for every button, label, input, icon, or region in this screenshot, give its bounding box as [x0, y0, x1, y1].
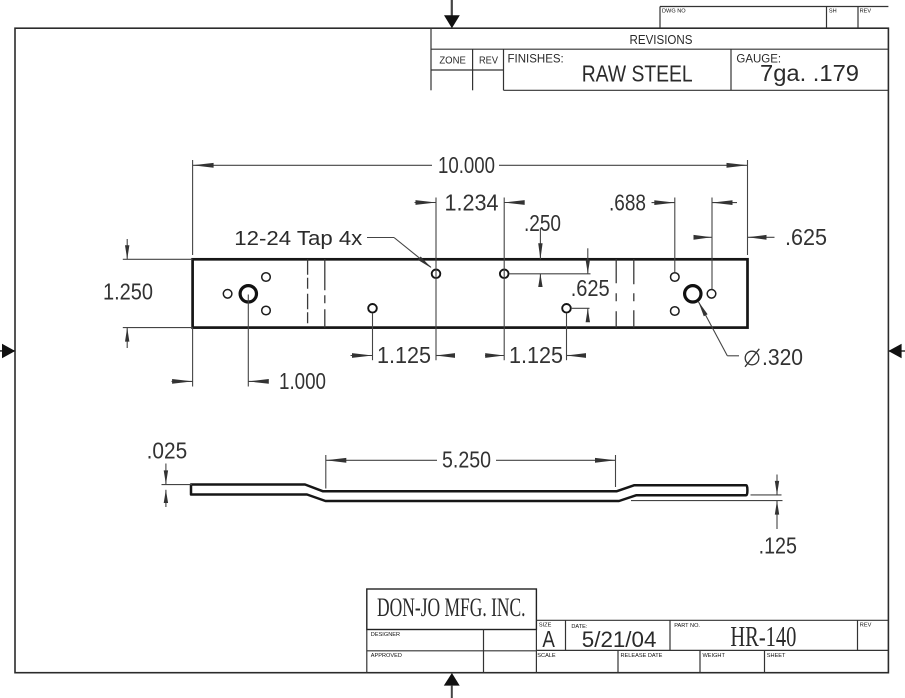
dim .625 right: [694, 236, 775, 238]
svg-text:RELEASE DATE: RELEASE DATE: [621, 653, 663, 659]
svg-text:.250: .250: [524, 210, 561, 236]
small hole right-east: [707, 290, 716, 299]
svg-text:SH: SH: [829, 9, 837, 15]
center mark top: [444, 0, 460, 28]
dim 1.000: [172, 295, 267, 387]
center mark right: [888, 344, 905, 359]
leader dia .320: [698, 301, 739, 356]
svg-text:12-24 Tap 4x: 12-24 Tap 4x: [234, 228, 362, 250]
svg-text:1.000: 1.000: [279, 368, 326, 394]
dim .688: [652, 198, 738, 290]
dim .125: [631, 475, 783, 530]
tap hole 3: [500, 270, 509, 279]
svg-text:5/21/04: 5/21/04: [582, 627, 657, 652]
dim 1.234: [415, 198, 522, 361]
svg-text:5.250: 5.250: [442, 447, 491, 473]
plate outline: [193, 259, 748, 327]
designer/approved rows: [367, 630, 537, 673]
svg-text:REV: REV: [860, 9, 872, 15]
svg-text:HR-140: HR-140: [730, 622, 796, 653]
dim 1.125 left: [351, 313, 451, 360]
bend centerline right b: [633, 259, 635, 327]
svg-text:DON-JO MFG. INC.: DON-JO MFG. INC.: [377, 593, 526, 622]
dim 10.000 arrows: [193, 163, 214, 168]
svg-text:REVISIONS: REVISIONS: [630, 32, 693, 47]
svg-text:.125: .125: [759, 533, 797, 559]
dwg-no strip top right: [660, 7, 888, 29]
dim 1.125 right: [485, 313, 582, 360]
profile strip outline: [191, 485, 747, 502]
small hole right-nw: [671, 273, 680, 282]
svg-text:WEIGHT: WEIGHT: [703, 653, 726, 659]
svg-text:APPROVED: APPROVED: [371, 653, 402, 659]
svg-text:.025: .025: [147, 438, 188, 464]
svg-text:DWG NO: DWG NO: [662, 9, 686, 15]
tap hole 2: [432, 270, 441, 279]
svg-text:.625: .625: [785, 224, 827, 250]
svg-text:1.125: 1.125: [509, 342, 563, 368]
dim 5.250: [326, 455, 616, 489]
svg-text:FINISHES:: FINISHES:: [508, 54, 564, 66]
svg-text:DESIGNER: DESIGNER: [371, 632, 400, 638]
svg-text:7ga. .179: 7ga. .179: [760, 60, 859, 86]
big hole left: [240, 286, 256, 302]
small hole left-ne: [262, 273, 271, 282]
small hole left-west: [223, 290, 232, 299]
svg-text:RAW STEEL: RAW STEEL: [582, 61, 693, 87]
svg-text:.320: .320: [762, 344, 803, 370]
svg-text:SHEET: SHEET: [767, 653, 786, 659]
dim 10.000 line: [193, 164, 432, 166]
dim .625 middle: [571, 248, 590, 321]
svg-text:.688: .688: [609, 190, 646, 216]
svg-text:REV: REV: [860, 623, 872, 629]
tap hole 1: [368, 304, 377, 313]
bend centerline left a: [307, 259, 309, 327]
bend centerline left b: [324, 259, 326, 327]
dim 10.000 extension lines: [192, 160, 194, 255]
center mark bottom: [444, 673, 460, 698]
svg-text:REV: REV: [479, 55, 498, 67]
svg-text:10.000: 10.000: [438, 152, 495, 178]
svg-text:A: A: [542, 626, 555, 652]
svg-text:1.125: 1.125: [377, 342, 431, 368]
small hole right-sw: [671, 307, 680, 316]
dia symbol: [745, 349, 759, 367]
dim .025: [162, 464, 193, 508]
svg-text:1.250: 1.250: [103, 279, 153, 305]
company box: [367, 589, 537, 630]
bend centerline right a: [615, 259, 617, 327]
tap hole 4: [562, 304, 571, 313]
svg-text:ZONE: ZONE: [439, 55, 466, 67]
dim 1.250: [123, 239, 193, 348]
svg-text:1.234: 1.234: [445, 190, 499, 216]
title block right grid: [536, 620, 888, 672]
svg-text:PART NO.: PART NO.: [674, 623, 700, 629]
revisions table: [431, 28, 888, 90]
dim .250: [509, 228, 591, 286]
leader 12-24 Tap 4x: [367, 238, 431, 268]
small hole left-se: [262, 306, 271, 315]
svg-text:.625: .625: [571, 275, 610, 301]
center mark left: [0, 344, 15, 359]
big hole right: [685, 286, 701, 302]
svg-text:SCALE: SCALE: [537, 653, 556, 659]
